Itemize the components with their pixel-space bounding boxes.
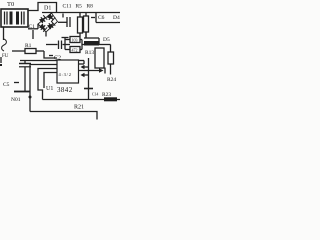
wire bridge bottom stub <box>45 32 47 37</box>
svg-text:R8: R8 <box>87 4 94 10</box>
diode bridge D1 <box>38 13 58 32</box>
diode blob crosses <box>41 15 53 29</box>
resistor R9 <box>70 37 80 43</box>
resistor R1 <box>12 50 25 52</box>
wire R13 right <box>99 44 111 46</box>
wire transformer to bridge left <box>28 28 38 30</box>
svg-text:C5: C5 <box>3 82 10 88</box>
wire left column from transformer <box>3 27 5 40</box>
svg-text:R5: R5 <box>76 4 83 10</box>
svg-text:N01: N01 <box>11 97 21 103</box>
wire bridge top stub <box>51 13 53 15</box>
svg-text:C14: C14 <box>92 93 98 97</box>
capacitor C6 stub <box>95 13 97 23</box>
svg-text:103: 103 <box>72 38 78 43</box>
wire pin3 left <box>38 69 57 100</box>
svg-text:472: 472 <box>72 48 78 53</box>
diode D1a <box>39 15 47 23</box>
svg-text:FU: FU <box>2 54 9 59</box>
wire U1 to opto with arrow <box>79 70 100 72</box>
capacitor C1 stub <box>32 30 34 39</box>
arrow pin6 <box>85 74 89 76</box>
resistor R13 <box>84 41 99 46</box>
diode D1c <box>39 23 47 31</box>
capacitor C2 <box>46 44 58 46</box>
wire U1 right pins <box>79 60 85 62</box>
transformer T0 <box>1 9 28 27</box>
node column mid <box>64 38 66 50</box>
svg-text:R24: R24 <box>107 77 116 83</box>
svg-text:R21: R21 <box>74 105 84 111</box>
wire pin2 left <box>30 65 57 112</box>
bottom wire upper <box>43 99 121 101</box>
junction node <box>29 96 32 99</box>
wire transformer to top rail <box>28 3 57 13</box>
resistor R8 <box>85 13 87 17</box>
wire resistor outputs <box>80 39 82 41</box>
label C2 <box>49 55 53 57</box>
ground <box>14 91 30 93</box>
capacitor C11 <box>58 21 67 23</box>
svg-text:D1: D1 <box>44 6 51 12</box>
optocoupler box <box>95 48 104 68</box>
svg-text:3842: 3842 <box>57 86 73 94</box>
resistor R24 <box>110 45 112 53</box>
wire pin4 left <box>44 73 57 89</box>
svg-text:D5: D5 <box>103 37 110 43</box>
wire vertical right of U1 <box>88 58 90 89</box>
IC U1 box <box>57 60 79 83</box>
fuse FU <box>2 39 7 51</box>
capacitor C5 top <box>24 61 26 64</box>
wire second rail right <box>96 22 120 24</box>
svg-text:U1: U1 <box>46 86 53 92</box>
svg-text:C11: C11 <box>63 4 72 10</box>
wire pin1 left <box>20 60 57 62</box>
wire R1 to U1 <box>44 51 57 58</box>
wire R8 bottom to corner <box>84 37 99 39</box>
diode D1b <box>47 13 55 21</box>
svg-text:T0: T0 <box>7 1 14 8</box>
svg-text:R13: R13 <box>85 50 94 56</box>
wire top rail <box>42 12 120 14</box>
capacitor C14 <box>84 88 93 90</box>
left edge stub <box>0 57 2 63</box>
resistor R5 <box>79 13 81 18</box>
svg-text:4:3/2: 4:3/2 <box>59 72 72 77</box>
svg-text:C6: C6 <box>98 15 105 21</box>
diode D1d <box>47 21 55 29</box>
bottom wire lower <box>30 112 97 120</box>
resistor R10 <box>70 47 80 53</box>
svg-text:R23: R23 <box>102 92 111 98</box>
resistor R23 <box>104 97 117 101</box>
svg-text:D4: D4 <box>113 15 120 21</box>
arrow pin5 <box>85 66 89 68</box>
